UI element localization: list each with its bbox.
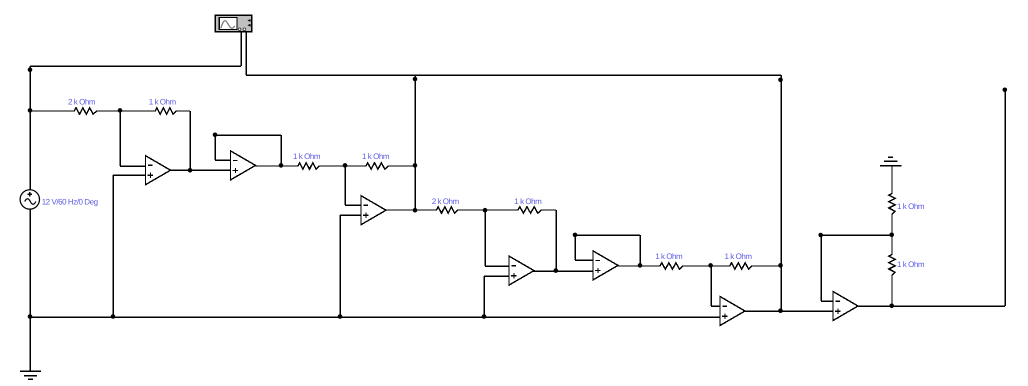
svg-text:12 V/60 Hz/0 Deg: 12 V/60 Hz/0 Deg	[42, 198, 98, 207]
svg-text:2 k Ohm: 2 k Ohm	[68, 97, 96, 106]
svg-text:1 k Ohm: 1 k Ohm	[655, 252, 683, 261]
svg-text:1 k Ohm: 1 k Ohm	[293, 152, 321, 161]
svg-text:1 k Ohm: 1 k Ohm	[897, 202, 925, 211]
svg-text:1 k Ohm: 1 k Ohm	[897, 260, 925, 269]
svg-text:1 k Ohm: 1 k Ohm	[362, 152, 390, 161]
svg-text:1 k Ohm: 1 k Ohm	[725, 252, 753, 261]
svg-text:2 k Ohm: 2 k Ohm	[432, 197, 460, 206]
svg-text:1 k Ohm: 1 k Ohm	[514, 197, 542, 206]
svg-text:1 k Ohm: 1 k Ohm	[149, 97, 177, 106]
